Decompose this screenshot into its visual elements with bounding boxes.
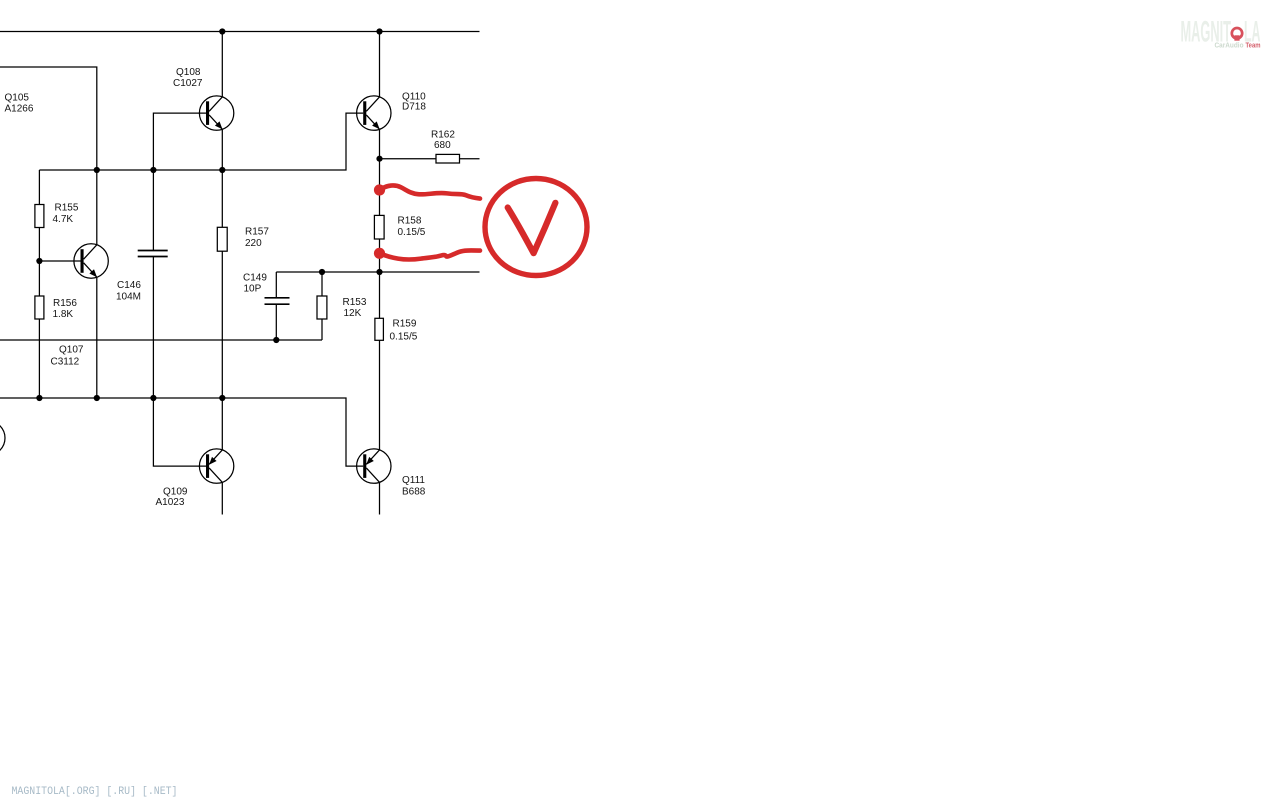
svg-text:Q105: Q105 <box>5 92 30 103</box>
svg-text:A1023: A1023 <box>156 497 185 508</box>
svg-text:B688: B688 <box>402 487 426 498</box>
svg-text:0.15/5: 0.15/5 <box>390 332 418 343</box>
svg-text:220: 220 <box>245 238 262 249</box>
svg-text:104M: 104M <box>116 291 141 302</box>
svg-text:R162: R162 <box>431 130 455 141</box>
svg-text:C1027: C1027 <box>173 78 203 89</box>
svg-text:1.8K: 1.8K <box>53 309 74 320</box>
svg-text:R155: R155 <box>55 203 79 214</box>
svg-text:10P: 10P <box>244 284 262 295</box>
svg-text:Q108: Q108 <box>176 67 201 78</box>
svg-text:4.7K: 4.7K <box>53 214 74 225</box>
svg-text:R153: R153 <box>343 297 367 308</box>
svg-text:Q111: Q111 <box>402 475 425 486</box>
svg-text:MAGNITOLA[.ORG] [.RU] [.NET]: MAGNITOLA[.ORG] [.RU] [.NET] <box>12 786 178 798</box>
svg-text:680: 680 <box>434 140 451 151</box>
svg-text:R158: R158 <box>398 216 422 227</box>
svg-text:C146: C146 <box>117 280 141 291</box>
svg-text:A1266: A1266 <box>5 104 34 115</box>
svg-text:R159: R159 <box>393 319 417 330</box>
svg-text:Q107: Q107 <box>59 345 84 356</box>
svg-text:R156: R156 <box>53 298 77 309</box>
svg-text:R157: R157 <box>245 227 269 238</box>
svg-text:C149: C149 <box>243 273 267 284</box>
svg-text:Team: Team <box>1246 43 1261 50</box>
svg-text:0.15/5: 0.15/5 <box>398 227 426 238</box>
svg-text:C3112: C3112 <box>51 357 80 368</box>
svg-text:CarAudio: CarAudio <box>1215 43 1244 50</box>
svg-text:12K: 12K <box>344 308 362 319</box>
svg-text:D718: D718 <box>402 102 426 113</box>
